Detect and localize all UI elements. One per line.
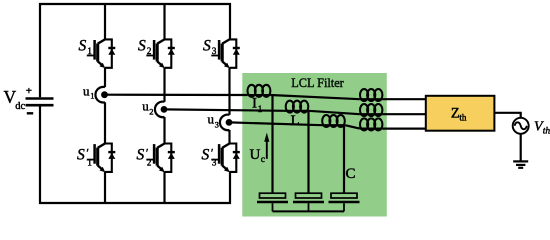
- svg-text:LCL Filter: LCL Filter: [291, 76, 343, 90]
- svg-text:th: th: [543, 127, 550, 137]
- svg-text:S: S: [138, 38, 146, 55]
- svg-text:S: S: [77, 147, 85, 164]
- svg-text:+: +: [26, 85, 32, 97]
- svg-text:I: I: [252, 95, 257, 111]
- svg-text:S: S: [79, 38, 87, 55]
- svg-text:u: u: [142, 98, 149, 113]
- svg-text:u: u: [83, 83, 90, 98]
- svg-text:3: 3: [212, 157, 217, 167]
- svg-text:1: 1: [87, 46, 92, 56]
- svg-text:U: U: [250, 147, 261, 163]
- svg-text:dc: dc: [15, 101, 25, 112]
- svg-text:2: 2: [149, 107, 153, 117]
- svg-text:1: 1: [87, 157, 92, 167]
- svg-text:3: 3: [215, 119, 219, 129]
- svg-text:S: S: [202, 147, 210, 164]
- svg-text:1: 1: [258, 104, 263, 114]
- svg-text:S: S: [203, 38, 211, 55]
- svg-text:u: u: [208, 111, 215, 126]
- svg-text:2: 2: [147, 157, 152, 167]
- svg-text:S: S: [137, 147, 145, 164]
- svg-text:C: C: [346, 166, 356, 182]
- svg-text:2: 2: [147, 46, 152, 56]
- svg-text:3: 3: [212, 46, 217, 56]
- svg-text:L: L: [291, 113, 300, 129]
- svg-text:c: c: [261, 155, 265, 165]
- svg-text:th: th: [459, 113, 467, 123]
- svg-text:1: 1: [90, 91, 94, 101]
